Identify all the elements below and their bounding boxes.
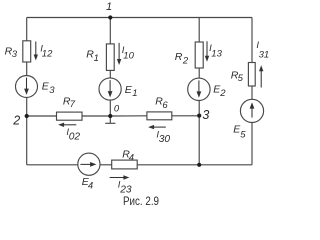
wire node0 to R6 xyxy=(110,115,147,117)
emf source E2 xyxy=(188,78,210,100)
wire top rail to R2 xyxy=(198,18,200,43)
resistor R7 xyxy=(57,112,83,120)
svg-text:31: 31 xyxy=(259,49,270,60)
ground bar xyxy=(105,122,115,124)
wire node2 to R7 xyxy=(27,115,57,117)
E1 source arrow xyxy=(109,80,111,92)
resistor R3 xyxy=(23,41,31,62)
svg-text:3: 3 xyxy=(202,108,209,122)
wire right branch upper xyxy=(251,18,253,63)
ground stub at node0 xyxy=(109,116,111,123)
svg-text:1: 1 xyxy=(132,88,137,99)
wire E5 to bottom rail xyxy=(251,123,253,165)
svg-text:2: 2 xyxy=(219,88,226,99)
current arrow I23 xyxy=(110,177,124,179)
wire E2 to node3 xyxy=(198,101,200,116)
resistor R5 xyxy=(248,63,255,87)
svg-text:2: 2 xyxy=(182,56,189,67)
wire E4 to R4 xyxy=(100,164,112,166)
emf source E1 xyxy=(99,78,121,100)
resistor R2 xyxy=(195,42,203,68)
svg-text:6: 6 xyxy=(162,100,168,111)
svg-text:0: 0 xyxy=(114,104,120,115)
wire node3 to bottom rail xyxy=(198,116,200,165)
svg-text:4: 4 xyxy=(88,180,93,191)
junction node 0 xyxy=(108,114,112,118)
emf source E5 xyxy=(240,99,263,122)
svg-text:4: 4 xyxy=(129,153,134,164)
svg-text:Рис. 2.9: Рис. 2.9 xyxy=(123,194,159,208)
resistor R1 xyxy=(106,44,114,71)
svg-text:1: 1 xyxy=(106,1,112,13)
junction node 2 xyxy=(25,114,29,118)
emf source E4 xyxy=(78,153,100,175)
svg-text:3: 3 xyxy=(49,85,55,96)
svg-text:7: 7 xyxy=(70,99,76,110)
svg-text:5: 5 xyxy=(240,129,246,140)
svg-text:02: 02 xyxy=(69,132,81,143)
current arrow I13 xyxy=(206,41,208,56)
svg-text:R: R xyxy=(175,51,183,63)
resistor R6 xyxy=(147,112,172,120)
E3 source arrow xyxy=(26,78,28,90)
resistor R4 xyxy=(112,160,138,169)
wire R3 to E3 xyxy=(26,62,28,76)
wire R5 to E5 xyxy=(251,86,253,99)
wire E3 through node2 to bottom-left corner xyxy=(26,98,28,165)
svg-text:30: 30 xyxy=(159,134,171,145)
svg-text:5: 5 xyxy=(238,73,244,84)
svg-text:2: 2 xyxy=(12,114,20,128)
wire E1 to node0 xyxy=(109,100,111,116)
wire R2 to E2 xyxy=(198,68,200,78)
E5 source arrow xyxy=(251,107,253,117)
current arrow I10 xyxy=(118,43,120,60)
svg-text:1: 1 xyxy=(94,53,99,64)
junction node 1 xyxy=(108,15,112,19)
current arrow I12 xyxy=(35,42,37,56)
svg-text:12: 12 xyxy=(42,49,53,60)
svg-text:10: 10 xyxy=(123,51,134,62)
wire R4 to bottom-right corner xyxy=(137,164,252,166)
current arrow I31 xyxy=(260,71,262,88)
wire left branch upper xyxy=(26,18,28,41)
wire top rail xyxy=(27,17,252,19)
current arrow I02 xyxy=(64,124,77,126)
E4 source arrow xyxy=(80,163,91,165)
emf source E3 xyxy=(16,76,38,98)
current arrow I30 xyxy=(154,126,166,128)
wire R6 to node3 xyxy=(172,115,199,117)
junction node 3 xyxy=(197,114,201,118)
wire node1 to R1 xyxy=(109,18,111,44)
wire R1 to E1 xyxy=(109,70,111,78)
svg-text:13: 13 xyxy=(211,49,222,60)
wire bottom rail left segment xyxy=(27,164,78,166)
svg-text:3: 3 xyxy=(12,49,18,60)
wire R7 to node0 xyxy=(82,115,110,117)
junction node3 branch at bottom rail xyxy=(197,163,201,167)
E2 source arrow xyxy=(198,80,200,92)
